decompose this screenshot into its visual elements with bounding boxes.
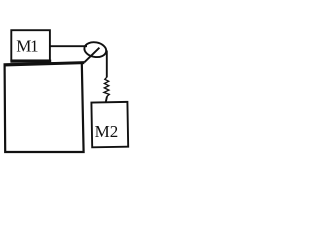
wire rope from pulley down to spring: [106, 51, 108, 78]
svg-text:M2: M2: [95, 122, 119, 141]
spring: [104, 77, 109, 96]
pulley axle bracket: [84, 48, 99, 63]
pulley: [83, 41, 107, 59]
block M1: [11, 30, 50, 60]
wire rope from spring to M2: [106, 96, 107, 102]
wire rope from M1 to pulley: [50, 45, 87, 47]
table (big box): [5, 63, 84, 152]
svg-text:M1: M1: [16, 37, 38, 56]
block M1 bottom thick edge: [10, 60, 51, 63]
block M2: [91, 102, 128, 147]
table top thick line: [4, 63, 84, 65]
